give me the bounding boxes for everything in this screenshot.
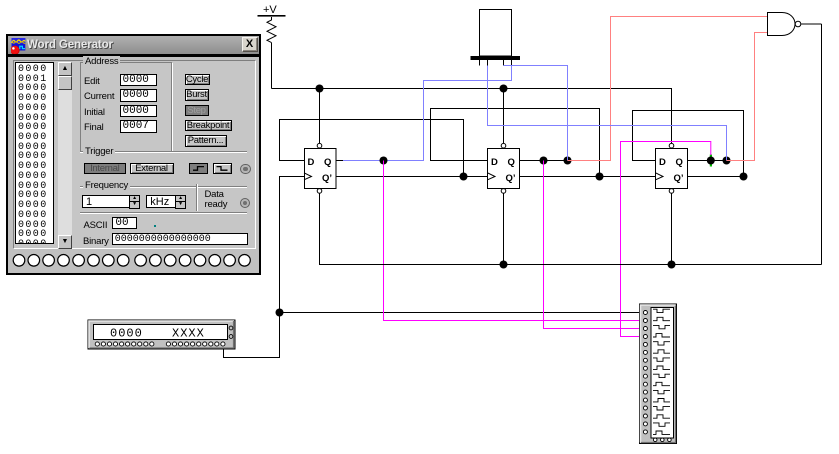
window title bbox=[27, 39, 113, 51]
wire: NAND output stub bbox=[801, 23, 822, 25]
logic analyzer icon bbox=[640, 304, 677, 444]
junction dot Q2 node blue/red bbox=[564, 157, 572, 165]
junction dot Q3 magenta tap bbox=[707, 157, 715, 165]
rising edge button (pressed) bbox=[189, 163, 209, 174]
U1 pin 1 bbox=[479, 60, 481, 66]
address list box bbox=[15, 62, 55, 244]
wire: Q2 to NAND input A (red) bbox=[568, 17, 768, 161]
title bar bbox=[8, 36, 259, 54]
resistor R1 bbox=[267, 17, 276, 43]
junction dot FF1 loop on Q'1 wire bbox=[460, 173, 468, 181]
word generator icon (minimized instrument) bbox=[88, 320, 235, 349]
junction dot Q2 to analyzer bbox=[540, 157, 548, 165]
frequency group line bbox=[80, 186, 247, 187]
control buttons bbox=[185, 74, 210, 86]
wire: Vcc rail across top to FF3 preset bbox=[272, 89, 672, 145]
svg-text:+V: +V bbox=[263, 4, 277, 16]
trigger group line bbox=[80, 151, 247, 152]
scrollbar bbox=[58, 62, 72, 248]
U1 pin 2 bbox=[487, 60, 489, 66]
svg-text:Q: Q bbox=[324, 157, 331, 168]
wire: FF1 clock from word generator bbox=[224, 177, 305, 358]
data ready bbox=[205, 190, 228, 212]
wire: Q1 output stub bbox=[336, 160, 343, 162]
svg-text:D: D bbox=[491, 157, 498, 168]
D flip-flop FF2 bbox=[488, 143, 520, 193]
wire: FF3 clear drop bbox=[671, 193, 673, 264]
junction dot FF3 clear bbox=[668, 261, 676, 269]
kHz box bbox=[146, 195, 176, 208]
logic analyzer channel waveforms bbox=[653, 309, 670, 434]
svg-text:D: D bbox=[659, 157, 666, 168]
junction dot at FF2 preset rail bbox=[500, 85, 508, 93]
wire: clock node to logic analyzer channel 1 bbox=[280, 312, 644, 314]
svg-text:Q’: Q’ bbox=[322, 173, 332, 184]
wire: rail drop to FF1 preset bbox=[319, 89, 321, 145]
wire: Q3 to NAND input B (red) bbox=[727, 33, 768, 161]
wire: FF2 D feedback loop from Q'2 bbox=[431, 109, 600, 177]
wire: Q3 to logic analyzer channel 4 (magenta) bbox=[621, 142, 711, 337]
wire: Q'2 to FF3 clock bbox=[520, 176, 656, 178]
svg-text:Q’: Q’ bbox=[506, 173, 516, 184]
separator under frequency bbox=[80, 212, 247, 213]
main panel sunken area bbox=[13, 60, 256, 249]
trigger radio bbox=[240, 164, 251, 175]
separator vertical before data ready bbox=[196, 184, 197, 212]
internal button (pressed) bbox=[84, 163, 127, 174]
frequency value box bbox=[82, 195, 130, 208]
address group frame bbox=[80, 62, 172, 152]
U1 pin 4 bbox=[511, 60, 513, 66]
wire: FF1 clear to clear rail bbox=[320, 193, 822, 264]
svg-text:D: D bbox=[308, 157, 315, 168]
wire: FF2 clear drop bbox=[503, 193, 505, 264]
svg-text:Q’: Q’ bbox=[674, 173, 684, 184]
ASCII row bbox=[84, 220, 108, 231]
falling edge button bbox=[213, 163, 232, 174]
junction dot FF2 clear bbox=[500, 261, 508, 269]
svg-text:XXXX: XXXX bbox=[172, 327, 205, 341]
wire: U1 pin2 to Q3 (blue) bbox=[488, 66, 727, 161]
wire: U1 pin3 to Q2 (blue) bbox=[504, 66, 568, 161]
wire: Q2 to logic analyzer channel 3 (magenta) bbox=[544, 161, 644, 329]
junction dot Q1 node bbox=[380, 157, 388, 165]
U1 pin 3 bbox=[503, 60, 505, 66]
edit value boxes bbox=[120, 74, 157, 87]
word generator icon bbox=[11, 38, 29, 56]
edit field labels bbox=[84, 76, 100, 87]
svg-text:0000: 0000 bbox=[110, 327, 143, 341]
junction dot FF2 loop on Q'2 wire bbox=[596, 173, 604, 181]
Binary row bbox=[83, 236, 109, 247]
wire: FF1 D feedback loop from Q'1 bbox=[280, 120, 464, 177]
wire: Q2 output bbox=[520, 160, 568, 162]
wire: Q3 output bbox=[688, 160, 727, 162]
word generator panel window bbox=[6, 34, 261, 275]
wire: Q'3 stub bbox=[688, 176, 744, 178]
wire: Q'1 to FF2 clock bbox=[336, 176, 488, 178]
wire: FF3 D feedback loop from Q'3 bbox=[633, 111, 744, 177]
svg-text:Q: Q bbox=[508, 157, 515, 168]
close button bbox=[242, 37, 258, 52]
power supply +V bbox=[258, 4, 286, 17]
D flip-flop FF1 bbox=[304, 143, 336, 193]
node: green connector on Q3 bbox=[710, 155, 712, 167]
junction dot Q3 blue tap bbox=[723, 157, 731, 165]
wire: rail drop to FF2 preset bbox=[503, 89, 505, 145]
junction dot FF3 loop on Q'3 wire bbox=[740, 173, 748, 181]
seven-segment display U1 body bbox=[471, 10, 521, 61]
svg-text:Q: Q bbox=[676, 157, 683, 168]
junction dot at FF1 preset rail bbox=[316, 85, 324, 93]
external button bbox=[130, 163, 174, 174]
stray teal pixel bbox=[154, 225, 156, 227]
junction dot clock feed to analyzer bbox=[276, 309, 284, 317]
D flip-flop FF3 bbox=[656, 143, 688, 193]
output terminals bbox=[8, 247, 259, 272]
wire: resistor to Vcc rail corner bbox=[271, 43, 273, 89]
wire: Q1 to logic analyzer channel 2 (magenta) bbox=[384, 161, 644, 321]
wire: Q1 to U1 pin4 (blue) bbox=[343, 66, 512, 161]
NAND gate U2 bbox=[768, 13, 801, 36]
title divider bbox=[8, 54, 259, 57]
wire: NAND output down to clear rail bbox=[821, 24, 823, 265]
